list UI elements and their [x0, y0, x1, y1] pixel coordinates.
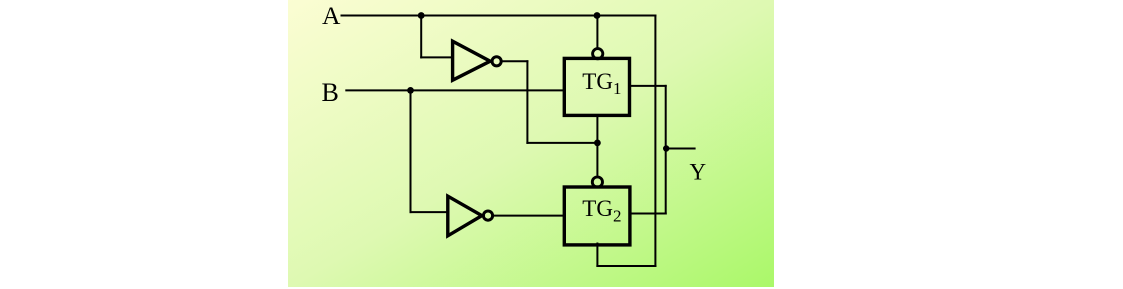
wire Y output stub: [666, 148, 695, 150]
junction dot node Y: [663, 145, 669, 151]
svg-text:Y: Y: [690, 159, 707, 184]
wire TG2 top control: [596, 143, 598, 175]
wire net A right-side vertical wrap: [654, 16, 656, 267]
wire net B horizontal: [346, 89, 564, 91]
wire inverter U1 input: [421, 56, 452, 58]
inverter U1: [453, 41, 502, 80]
junction dot mid control node: [594, 140, 601, 147]
wire branch A down to inverter U1: [420, 16, 422, 58]
wire net A horizontal: [342, 15, 656, 17]
TG2 control bubble: [592, 177, 602, 187]
wire bottom return to TG2: [597, 265, 655, 267]
wire TG2 output: [630, 213, 666, 215]
wire inverter U1 output: [501, 60, 527, 62]
TG1 control bubble: [593, 49, 603, 59]
junction dot on B: [407, 87, 414, 94]
wire TG2 bottom control stub: [596, 244, 598, 267]
wire TG1 output: [630, 85, 666, 87]
wire to mid control node: [527, 142, 597, 144]
background gradient panel: [288, 0, 774, 287]
wire branch B down to inverter U2: [410, 90, 412, 212]
transmission gate TG1 box: [564, 58, 629, 115]
wire TG1 bottom control: [596, 115, 598, 142]
inverter U2: [448, 196, 493, 236]
wire U1 output vertical down: [526, 61, 528, 143]
transmission gate TG2 box: [564, 187, 630, 245]
wire TG1 top control: [596, 16, 598, 48]
svg-text:A: A: [322, 1, 341, 30]
wire inverter U2 input: [411, 211, 448, 213]
junction dot on A at TG1 control: [594, 12, 601, 19]
junction dot on A at inverter branch: [418, 12, 425, 19]
svg-text:B: B: [322, 78, 339, 107]
wire inverter U2 output to TG2: [493, 215, 564, 217]
wire output right vertical: [665, 86, 667, 214]
